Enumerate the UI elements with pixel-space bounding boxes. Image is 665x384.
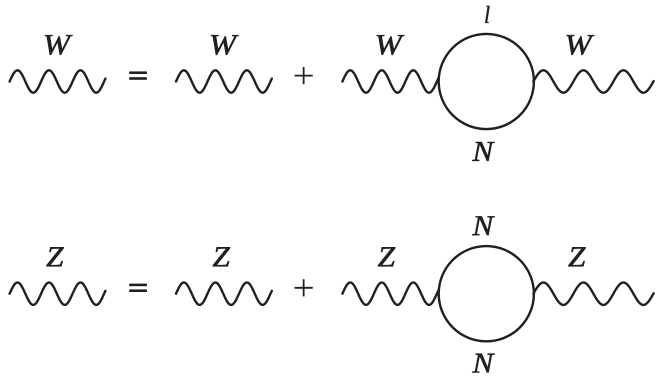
fermion loop circle row2 [439, 246, 534, 341]
label Z above left propagator [46, 247, 63, 266]
label Z above left loop leg [378, 247, 395, 266]
plus sign row1 [295, 67, 313, 84]
wave row1 tree-level W propagator [176, 70, 272, 92]
wave row2 left Z propagator [10, 283, 106, 305]
label W above left loop leg [377, 35, 405, 55]
label Z above tree propagator [213, 247, 230, 266]
label N below loop row1 [472, 142, 495, 161]
label l above loop row1 [485, 6, 489, 23]
label W above left propagator [45, 35, 73, 55]
label N below loop row2 [472, 354, 495, 373]
plus sign row2 [295, 279, 313, 296]
wave row2 Z leg into loop [342, 283, 438, 305]
label N above loop row2 [472, 216, 495, 235]
label W above tree propagator [211, 35, 239, 55]
wave row1 W leg out of loop [533, 70, 653, 92]
wave row2 Z leg out of loop [533, 283, 653, 305]
equals sign row2 [129, 284, 147, 292]
fermion loop circle row1 [439, 34, 534, 129]
label W above right loop leg [567, 35, 595, 55]
wave row1 left W propagator [10, 70, 106, 92]
equals sign row1 [129, 71, 147, 79]
label Z above right loop leg [568, 247, 585, 266]
wave row2 tree-level Z propagator [176, 283, 272, 305]
wave row1 W leg into loop [342, 70, 438, 92]
